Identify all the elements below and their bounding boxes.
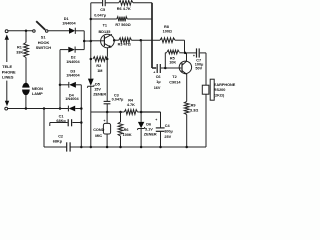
svg-text:+: + bbox=[193, 54, 195, 58]
svg-text:R3 47Ω: R3 47Ω bbox=[118, 42, 131, 46]
svg-text:5.1V: 5.1V bbox=[145, 127, 153, 131]
label C6 1u 16V bbox=[154, 75, 161, 90]
wire bridge negative vertical bbox=[80, 85, 82, 147]
svg-text:NEON: NEON bbox=[32, 87, 43, 91]
svg-text:ZENER: ZENER bbox=[144, 132, 157, 136]
svg-text:1N4004: 1N4004 bbox=[65, 97, 79, 101]
svg-text:10K: 10K bbox=[169, 61, 176, 65]
svg-text:68Kp: 68Kp bbox=[53, 140, 63, 144]
node bus junction x60 bbox=[59, 107, 62, 110]
node T2 collector junction bbox=[184, 52, 187, 55]
diode D1 1N4004 bbox=[69, 28, 84, 34]
svg-text:D5: D5 bbox=[95, 82, 100, 86]
label D5 15V ZENER bbox=[93, 82, 106, 96]
wire top supply line bbox=[91, 2, 152, 4]
wire switch to D1 bbox=[48, 30, 69, 32]
resistor R7 560 bbox=[91, 17, 152, 22]
svg-text:R8: R8 bbox=[164, 25, 169, 29]
resistor R2 1M bbox=[93, 57, 107, 62]
label D1 1N4004 bbox=[62, 17, 76, 25]
label T1 BD135 bbox=[99, 23, 111, 34]
svg-text:+: + bbox=[153, 70, 155, 74]
svg-text:50V: 50V bbox=[195, 67, 202, 71]
svg-text:16V: 16V bbox=[154, 86, 161, 90]
wire D1/D2 cathode junction bbox=[83, 31, 85, 50]
svg-text:EARPHONE: EARPHONE bbox=[214, 83, 236, 87]
node T2 base junction bbox=[164, 67, 167, 70]
zener diode D5 15V bbox=[87, 79, 94, 88]
label D3 1N4004 bbox=[66, 69, 80, 77]
svg-text:D1: D1 bbox=[64, 17, 69, 21]
svg-text:R4: R4 bbox=[128, 98, 134, 102]
neon lamp NE-2 bbox=[21, 83, 31, 109]
wire telephone line lead (up arrow) bbox=[5, 34, 9, 62]
svg-text:R9: R9 bbox=[191, 103, 196, 107]
node bridge positive B bbox=[90, 40, 93, 43]
label R7 560 bbox=[115, 23, 130, 27]
resistor R8 100 bbox=[160, 38, 185, 53]
node ground junction x81 bbox=[80, 146, 83, 149]
wire coupling branch vertical bbox=[43, 109, 45, 148]
zener diode D6 5.1V bbox=[137, 122, 144, 130]
label R4 4.7K bbox=[127, 98, 135, 107]
svg-text:D6: D6 bbox=[146, 122, 151, 126]
capacitor C6 1u 16V bbox=[153, 64, 181, 74]
svg-text:100µ: 100µ bbox=[164, 130, 173, 134]
node R2 tap bbox=[90, 58, 93, 61]
svg-text:BD135: BD135 bbox=[99, 30, 111, 34]
svg-text:LAMP: LAMP bbox=[32, 92, 43, 96]
svg-text:T1: T1 bbox=[103, 23, 107, 27]
svg-text:15V: 15V bbox=[94, 87, 101, 91]
svg-text:HOOK: HOOK bbox=[38, 40, 50, 45]
node telephone line terminal B bbox=[5, 107, 8, 110]
wire rectified negative rail vertical bbox=[90, 3, 92, 147]
svg-text:MIC: MIC bbox=[95, 134, 102, 138]
node C3/mic junction bbox=[106, 111, 109, 114]
transistor T2 C9014 bbox=[179, 53, 191, 102]
svg-text:25V: 25V bbox=[164, 135, 171, 139]
resistor R3 47 bbox=[114, 38, 160, 43]
node bus end bbox=[80, 107, 83, 110]
microphone COND MIC bbox=[103, 112, 110, 147]
label R2 1M bbox=[96, 64, 102, 73]
svg-text:C6: C6 bbox=[156, 75, 161, 79]
node ground tap x91 bbox=[90, 146, 93, 149]
svg-text:R1: R1 bbox=[17, 46, 22, 50]
transistor T1 BD135 bbox=[91, 34, 114, 56]
node telephone line terminal A bbox=[5, 30, 8, 33]
wire earphone feed bbox=[205, 53, 207, 147]
label T2 C9014 bbox=[169, 75, 181, 85]
node C1 right junction bbox=[80, 121, 83, 124]
label NEON LAMP bbox=[32, 87, 43, 96]
label S1 HOOK SWITCH bbox=[36, 35, 52, 51]
label C7 100u 50V bbox=[195, 59, 204, 71]
svg-text:C9014: C9014 bbox=[169, 81, 181, 85]
wire telephone line lead (down arrow) bbox=[5, 81, 9, 107]
svg-text:68Kp: 68Kp bbox=[56, 119, 66, 123]
resistor R5 10K bbox=[165, 50, 184, 68]
svg-text:LINES: LINES bbox=[2, 75, 14, 80]
label D2 1N4004 bbox=[66, 55, 80, 64]
label D6 5.1V ZENER bbox=[144, 122, 157, 136]
svg-text:3.3Ω: 3.3Ω bbox=[190, 108, 198, 112]
capacitor C1 68Kp bbox=[50, 119, 82, 126]
label C3 0.047u bbox=[112, 93, 124, 101]
capacitor C3 0.047u bbox=[104, 101, 111, 112]
svg-text:T2: T2 bbox=[172, 75, 176, 79]
svg-text:1µ: 1µ bbox=[156, 80, 160, 84]
switch S1 HOOK SWITCH bbox=[33, 21, 48, 32]
svg-text:4.7K: 4.7K bbox=[127, 103, 135, 107]
svg-text:33K: 33K bbox=[16, 51, 23, 55]
resistor R6 4.7K bbox=[119, 0, 133, 5]
wire microphone bias line bbox=[91, 111, 161, 113]
node D6 branch top bbox=[140, 39, 143, 42]
node R6 100K ground bbox=[119, 146, 122, 149]
wire D2/D3 left vertical bbox=[59, 50, 61, 109]
svg-text:TELE: TELE bbox=[2, 64, 12, 69]
svg-text:1N4004: 1N4004 bbox=[66, 73, 80, 77]
svg-text:+: + bbox=[103, 119, 105, 123]
svg-text:C5: C5 bbox=[100, 8, 105, 12]
node mic ground bbox=[106, 146, 109, 149]
wire bottom telephone bus bbox=[8, 108, 82, 110]
svg-text:D2: D2 bbox=[71, 55, 76, 59]
node D6 bias junction bbox=[140, 111, 143, 114]
svg-text:100Ω: 100Ω bbox=[163, 30, 172, 34]
capacitor C2 68Kp bbox=[67, 142, 70, 151]
node R6 100K top bbox=[119, 111, 122, 114]
resistor R1 33K bbox=[24, 31, 29, 83]
svg-text:COND: COND bbox=[93, 128, 104, 132]
svg-text:C2: C2 bbox=[58, 135, 63, 139]
capacitor C7 100u 50V bbox=[187, 48, 206, 58]
label COND MIC bbox=[93, 128, 104, 138]
svg-text:R2: R2 bbox=[96, 64, 101, 68]
label R5 10K bbox=[169, 56, 176, 64]
node D6 ground bbox=[140, 146, 143, 149]
svg-text:0.047µ: 0.047µ bbox=[112, 98, 124, 102]
node T1 output bbox=[113, 39, 116, 42]
svg-text:RS200: RS200 bbox=[214, 88, 226, 92]
capacitor C4 100u 25V bbox=[155, 112, 164, 147]
svg-text:ZENER: ZENER bbox=[93, 92, 106, 96]
svg-text:C4: C4 bbox=[165, 124, 171, 128]
node D3 junction bbox=[59, 84, 62, 87]
svg-text:R7 560Ω: R7 560Ω bbox=[115, 23, 130, 27]
label EARPHONE RS200 (2K) bbox=[214, 83, 236, 98]
label C1 68Kp bbox=[56, 114, 66, 123]
wire ground bus bbox=[44, 146, 206, 148]
diode D3 1N4004 bbox=[60, 82, 81, 88]
resistor R6 100K (bias) bbox=[118, 112, 123, 147]
diode D2 1N4004 bbox=[60, 47, 84, 53]
svg-text:C1: C1 bbox=[59, 114, 64, 118]
diode D4 1N4004 bbox=[68, 106, 75, 112]
label C2 68Kp bbox=[53, 135, 63, 144]
wire top line from terminal A to hook switch bbox=[8, 30, 33, 32]
node R7 tap bbox=[90, 18, 93, 21]
svg-text:PHONE: PHONE bbox=[2, 69, 16, 74]
svg-text:100K: 100K bbox=[123, 133, 132, 137]
node bridge positive A bbox=[83, 40, 86, 43]
svg-text:R5: R5 bbox=[170, 56, 175, 60]
svg-text:1N4004: 1N4004 bbox=[66, 60, 80, 64]
resistor R9 3.3 bbox=[184, 101, 189, 147]
svg-text:1N4004: 1N4004 bbox=[62, 21, 76, 25]
svg-text:1M: 1M bbox=[97, 69, 102, 73]
label R6 100K bbox=[123, 128, 132, 137]
wire supply drop to C6 bbox=[152, 3, 156, 68]
wire bridge positive node stub bbox=[84, 40, 91, 42]
node junction R1 top bbox=[25, 30, 28, 33]
capacitor C5 0.047u bbox=[103, 0, 106, 6]
earphone RS200 bbox=[202, 79, 214, 100]
label D4 1N4004 bbox=[65, 93, 79, 101]
node C4 ground bbox=[159, 146, 162, 149]
svg-text:0.047µ: 0.047µ bbox=[94, 14, 106, 18]
wire D6 branch vertical bbox=[140, 40, 142, 147]
svg-text:R6 4.7K: R6 4.7K bbox=[117, 7, 131, 11]
svg-text:+: + bbox=[155, 118, 157, 122]
label R6 4.7K bbox=[117, 7, 131, 11]
label R9 3.3 bbox=[190, 103, 198, 112]
label C5 0.047u bbox=[94, 8, 106, 18]
label R8 100 bbox=[163, 25, 172, 33]
node R2 right bbox=[106, 58, 109, 61]
label C4 100u 25V bbox=[164, 124, 173, 139]
wire T1 emitter chain bbox=[106, 57, 108, 102]
node R9 ground bbox=[185, 146, 188, 149]
label R1 33K bbox=[16, 46, 23, 55]
svg-text:SWITCH: SWITCH bbox=[36, 45, 52, 50]
resistor R4 4.7K bbox=[124, 110, 137, 115]
svg-text:(2KΩ): (2KΩ) bbox=[214, 93, 225, 97]
node neon to bus bbox=[25, 107, 28, 110]
node C-chain to bus bbox=[43, 107, 46, 110]
label R3 47 bbox=[118, 42, 131, 46]
label TELEPHONE LINES bbox=[2, 64, 16, 80]
svg-text:R6: R6 bbox=[124, 128, 129, 132]
